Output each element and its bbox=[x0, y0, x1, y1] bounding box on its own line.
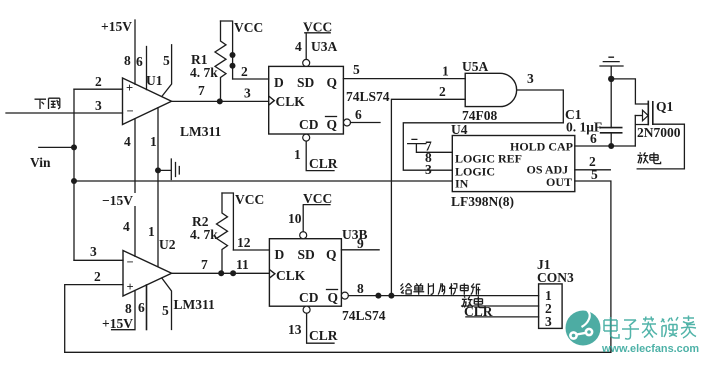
svg-text:3: 3 bbox=[95, 98, 102, 113]
svg-text:8: 8 bbox=[357, 281, 364, 296]
svg-text:1: 1 bbox=[294, 147, 301, 162]
svg-text:D: D bbox=[274, 75, 284, 90]
wire U2 pin2 input from bottom rail bbox=[65, 269, 123, 352]
svg-text:+: + bbox=[126, 81, 133, 95]
svg-text:1: 1 bbox=[442, 64, 449, 79]
svg-text:7: 7 bbox=[201, 257, 208, 272]
watermark text 电子发烧友 bbox=[604, 316, 696, 340]
wire J1 pin3 CLR bbox=[464, 304, 539, 319]
wire U1 pin6 stub bbox=[124, 47, 147, 90]
svg-text:CLR: CLR bbox=[464, 304, 493, 319]
bubble U3B SD preset bbox=[300, 232, 307, 239]
svg-text:U5A: U5A bbox=[462, 59, 488, 74]
sample-hold U4 LF398N bbox=[451, 122, 575, 209]
svg-text:www.elecfans.com: www.elecfans.com bbox=[601, 343, 699, 355]
wire U2 output pin7 bbox=[172, 257, 270, 273]
svg-text:Vin: Vin bbox=[30, 155, 51, 170]
svg-text:−15V: −15V bbox=[102, 193, 133, 208]
svg-text:Q: Q bbox=[327, 117, 338, 132]
bubble U3A SD preset bbox=[303, 59, 310, 66]
power VCC (U3B pin10) bbox=[288, 191, 332, 232]
svg-text:10: 10 bbox=[288, 211, 302, 226]
svg-text:+: + bbox=[127, 280, 134, 294]
node junction R1/output bbox=[217, 98, 223, 104]
svg-text:7: 7 bbox=[198, 83, 205, 98]
wire U1 pin4 / -15V rail to U2 pin4 bbox=[124, 119, 135, 257]
wire U2 pin6 stub bbox=[138, 285, 147, 330]
wire U5A pin2 input from interrupt net bbox=[391, 84, 465, 296]
bubble U3B notQ pin8 bbox=[341, 292, 348, 299]
svg-text:CLR: CLR bbox=[309, 328, 338, 343]
svg-text:CLK: CLK bbox=[276, 94, 306, 109]
node junction gnd/C1/drain bbox=[608, 76, 614, 82]
node junctions on interrupt net bbox=[375, 293, 394, 299]
power VCC (R1) bbox=[221, 20, 264, 79]
svg-text:IN: IN bbox=[455, 177, 469, 191]
svg-text:U3A: U3A bbox=[311, 39, 337, 54]
node label 下阈 bbox=[35, 98, 60, 109]
svg-text:7: 7 bbox=[425, 139, 432, 154]
capacitor C1 0.1uF bbox=[565, 79, 622, 146]
svg-text:4: 4 bbox=[124, 134, 131, 149]
svg-text:11: 11 bbox=[236, 257, 249, 272]
op-amp U2 bbox=[123, 237, 215, 312]
ground (U4 pin7) bbox=[408, 139, 426, 143]
op-amp U1 bbox=[123, 73, 222, 139]
wire U5A output pin3 bbox=[517, 71, 564, 123]
D flip-flop U3B 74LS74 bbox=[269, 227, 385, 323]
svg-text:74LS74: 74LS74 bbox=[346, 89, 390, 104]
svg-text:3: 3 bbox=[545, 314, 552, 329]
wire U3A pin1 CLR bbox=[294, 141, 338, 171]
wire U3B Q output pin9 stub bbox=[341, 236, 379, 251]
svg-text:8: 8 bbox=[124, 53, 131, 68]
wire Vin vertical (U1+ to U2 top input) bbox=[73, 89, 75, 260]
svg-text:SD: SD bbox=[298, 247, 316, 262]
wire U2 pin8 to +15V bbox=[112, 291, 135, 330]
bubble U3A CD clear bbox=[303, 134, 310, 141]
wire U2 pin5 stub bbox=[162, 278, 172, 330]
wire U4 pin7 LOGIC REF to ground bbox=[416, 139, 452, 154]
svg-text:74F08: 74F08 bbox=[462, 108, 497, 123]
node junction Vin/IN bbox=[71, 178, 77, 184]
svg-text:13: 13 bbox=[288, 322, 302, 337]
svg-text:CLR: CLR bbox=[309, 156, 338, 171]
bubble U3B CD clear bbox=[303, 306, 310, 313]
svg-text:5: 5 bbox=[353, 62, 360, 77]
node junctions on U2 output bbox=[218, 270, 236, 276]
net label 放电 (Q1 gate) bbox=[638, 152, 661, 163]
svg-text:6: 6 bbox=[355, 107, 362, 122]
watermark logo circle bbox=[566, 309, 601, 346]
wire U2 pin3 input bbox=[74, 244, 123, 260]
wire U4 pin6 HOLD CAP bbox=[575, 131, 636, 146]
resistor R1 4.7k bbox=[190, 21, 226, 101]
ground (comparators) bbox=[158, 159, 179, 180]
wire U3A notQ pin6 stub bbox=[351, 107, 381, 123]
svg-text:6: 6 bbox=[136, 54, 143, 69]
svg-text:SD: SD bbox=[297, 75, 315, 90]
svg-text:5: 5 bbox=[162, 303, 169, 318]
bubble U3A notQ pin6 bbox=[344, 119, 351, 126]
wire U1 pin3 input (lower threshold) bbox=[6, 98, 123, 113]
resistor R2 4.7k bbox=[190, 193, 228, 273]
wire U3B notQ pin8 to J1 pin1 (interrupt net) bbox=[348, 281, 538, 296]
svg-text:Q1: Q1 bbox=[656, 99, 674, 114]
wire J1 pin2 discharge bbox=[462, 305, 539, 307]
power VCC (U3A pin4) bbox=[295, 20, 332, 60]
wire U3A Q output pin5 to U5A pin1 bbox=[343, 62, 465, 79]
wire U3B D input pin12 bbox=[233, 235, 269, 250]
svg-text:4. 7k: 4. 7k bbox=[190, 65, 218, 80]
svg-text:OUT: OUT bbox=[546, 175, 572, 189]
svg-text:4: 4 bbox=[295, 39, 302, 54]
svg-text:2: 2 bbox=[95, 74, 102, 89]
wire U4 pin3 IN from Vin node bbox=[74, 162, 452, 181]
wire U1 pin5 stub bbox=[162, 45, 172, 97]
transistor Q1 2N7000 bbox=[611, 79, 684, 169]
wire U3A D input pin2 bbox=[233, 64, 269, 79]
wire U4 pin5 OUT feedback to bottom rail bbox=[575, 167, 611, 352]
svg-text:U4: U4 bbox=[451, 122, 468, 137]
power VCC (R2) bbox=[222, 192, 264, 250]
svg-text:Q: Q bbox=[327, 75, 338, 90]
svg-text:74LS74: 74LS74 bbox=[342, 308, 386, 323]
svg-text:HOLD CAP: HOLD CAP bbox=[510, 140, 573, 154]
svg-text:5: 5 bbox=[163, 53, 170, 68]
node junction pin1-ground bbox=[155, 167, 161, 173]
wire Vin input bbox=[30, 144, 77, 170]
wire U1 output pin7 bbox=[172, 83, 269, 101]
D flip-flop U3A 74LS74 bbox=[269, 39, 390, 134]
svg-text:3: 3 bbox=[90, 244, 97, 259]
svg-text:+15V: +15V bbox=[102, 316, 133, 331]
svg-text:4: 4 bbox=[123, 219, 130, 234]
svg-text:LF398N(8): LF398N(8) bbox=[451, 194, 514, 209]
power +15V (top) bbox=[101, 19, 135, 84]
svg-text:U2: U2 bbox=[159, 237, 176, 252]
svg-text:CON3: CON3 bbox=[537, 270, 574, 285]
svg-text:Q: Q bbox=[328, 290, 339, 305]
connector J1 CON3 bbox=[537, 257, 574, 329]
power +15V (bottom) bbox=[102, 316, 134, 331]
AND gate U5A 74F08 bbox=[462, 59, 517, 123]
svg-text:9: 9 bbox=[357, 236, 364, 251]
svg-text:D: D bbox=[275, 247, 285, 262]
svg-text:VCC: VCC bbox=[235, 192, 264, 207]
svg-text:VCC: VCC bbox=[303, 20, 332, 35]
wire U5A output to U4 LOGIC pin8 bbox=[403, 123, 563, 170]
svg-text:LOGIC REF: LOGIC REF bbox=[455, 152, 522, 166]
power -15V bbox=[100, 193, 137, 208]
svg-text:2: 2 bbox=[439, 84, 446, 99]
svg-text:VCC: VCC bbox=[303, 191, 332, 206]
svg-text:CLK: CLK bbox=[276, 268, 306, 283]
svg-text:12: 12 bbox=[237, 235, 251, 250]
net label 放电 (J1) bbox=[462, 296, 485, 307]
wire U4 pin2 OS ADJ stub bbox=[575, 154, 611, 170]
svg-text:−: − bbox=[127, 104, 134, 118]
svg-text:CD: CD bbox=[299, 290, 319, 305]
svg-text:CD: CD bbox=[299, 117, 319, 132]
wire bottom rail bbox=[65, 351, 611, 353]
wire U1 pin1 / ground rail to U2 pin1 bbox=[123, 108, 158, 267]
wire U3B pin13 CLR bbox=[288, 313, 338, 343]
svg-text:3: 3 bbox=[527, 71, 534, 86]
svg-text:U1: U1 bbox=[146, 73, 163, 88]
svg-text:+15V: +15V bbox=[101, 19, 132, 34]
svg-text:2: 2 bbox=[94, 269, 101, 284]
svg-text:LM311: LM311 bbox=[174, 297, 216, 312]
svg-text:3: 3 bbox=[244, 86, 251, 101]
svg-text:Q: Q bbox=[326, 247, 337, 262]
svg-text:2: 2 bbox=[241, 64, 248, 79]
svg-text:5: 5 bbox=[591, 167, 598, 182]
svg-text:4. 7k: 4. 7k bbox=[190, 227, 218, 242]
svg-text:2N7000: 2N7000 bbox=[637, 125, 681, 140]
svg-text:0. 1μF: 0. 1μF bbox=[566, 120, 602, 135]
ground (C1 top / drain) bbox=[600, 57, 623, 79]
net label 给单片机中断 (interrupt) bbox=[400, 283, 480, 295]
svg-text:8: 8 bbox=[125, 301, 132, 316]
svg-text:3: 3 bbox=[425, 162, 432, 177]
svg-text:1: 1 bbox=[150, 134, 157, 149]
node dots on VCC leg bbox=[230, 52, 236, 69]
svg-text:LM311: LM311 bbox=[180, 124, 222, 139]
svg-text:6: 6 bbox=[138, 300, 145, 315]
svg-text:−: − bbox=[127, 255, 134, 269]
svg-text:VCC: VCC bbox=[234, 20, 263, 35]
wire U1 pin2 input bbox=[74, 74, 123, 89]
svg-text:1: 1 bbox=[148, 224, 155, 239]
node junction C1/holdcap bbox=[608, 143, 614, 149]
